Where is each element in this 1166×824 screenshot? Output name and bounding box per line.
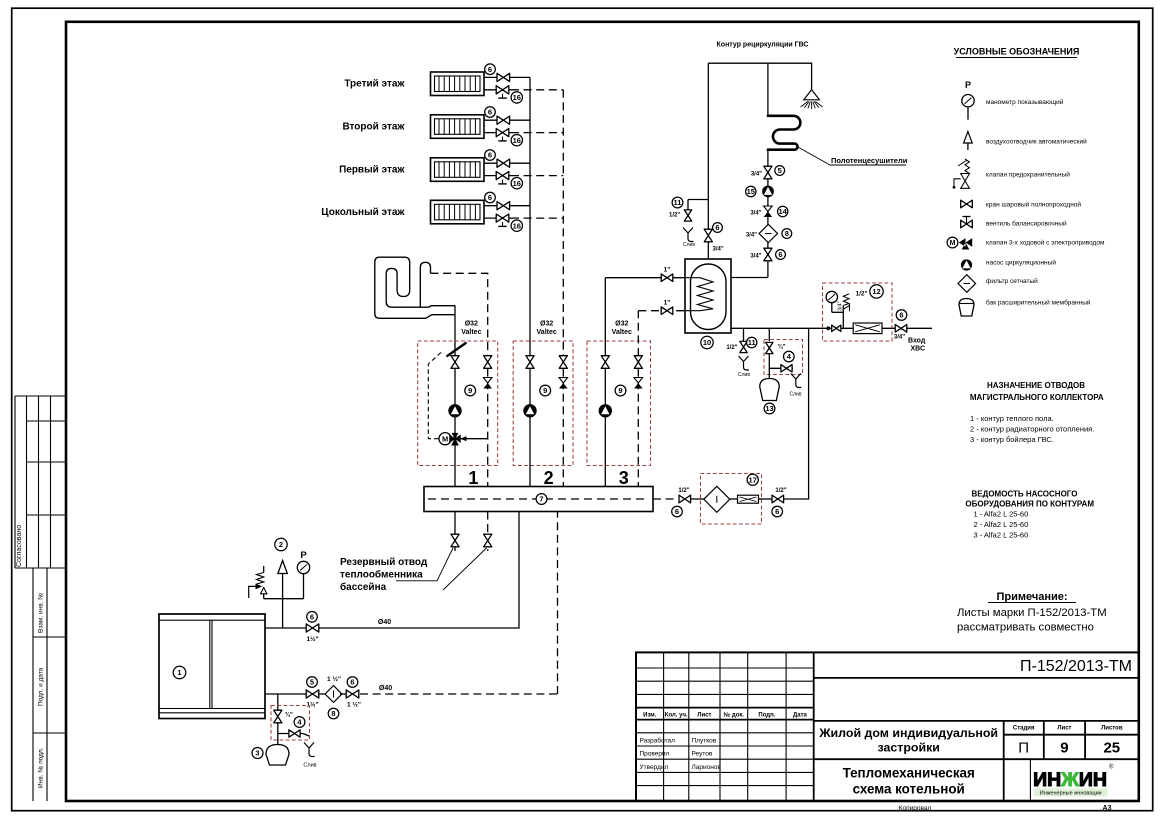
svg-text:9: 9 <box>1060 740 1068 757</box>
valve ¾ drain <box>274 710 305 727</box>
svg-text:6: 6 <box>310 613 314 622</box>
drain line to funnel <box>278 730 309 737</box>
svg-text:6: 6 <box>899 311 903 320</box>
svg-text:1 ½": 1 ½" <box>347 701 361 709</box>
pipe radiator return 2 <box>484 132 511 134</box>
valve group 1 supply <box>451 356 459 369</box>
svg-text:3/4": 3/4" <box>894 335 905 341</box>
label Вход ХВС <box>908 338 926 353</box>
svg-text:25: 25 <box>1103 740 1120 757</box>
valve 6 radiator supply 1 <box>485 64 510 82</box>
svg-text:2 - контур радиаторного отопле: 2 - контур радиаторного отопления. <box>970 425 1094 434</box>
svg-text:8: 8 <box>785 229 789 238</box>
svg-text:Подп.: Подп. <box>758 713 775 719</box>
valve 6 cold water inlet <box>894 310 907 341</box>
svg-text:Valtec: Valtec <box>537 329 557 336</box>
svg-text:Жилой дом индивидуальной: Жилой дом индивидуальной <box>818 726 998 740</box>
svg-text:Слив: Слив <box>303 763 316 769</box>
svg-text:схема котельной: схема котельной <box>853 782 965 797</box>
pipe radiator return 1 <box>484 89 511 91</box>
svg-text:6: 6 <box>350 678 354 687</box>
valve 16 radiator return 1 with drain <box>496 86 522 103</box>
pipe reserve outlet supply <box>454 512 456 552</box>
pump group 2 <box>523 404 536 417</box>
svg-text:Инженерные инновации: Инженерные инновации <box>1040 791 1102 797</box>
svg-text:Ларионов: Ларионов <box>692 764 722 771</box>
filter 17 strainer <box>691 486 730 512</box>
svg-text:Реутов: Реутов <box>692 751 713 758</box>
svg-text:7: 7 <box>539 495 543 504</box>
pipe collector to filter 17 <box>653 498 678 500</box>
pump group 1 <box>448 404 461 417</box>
radiator Первый этаж <box>431 158 485 182</box>
pipe floor circuit supply <box>454 306 456 356</box>
expansion tank 13 <box>760 379 780 414</box>
svg-text:МАГИСТРАЛЬНОГО КОЛЛЕКТОРА: МАГИСТРАЛЬНОГО КОЛЛЕКТОРА <box>970 393 1104 402</box>
pipe radiator return 3 <box>484 175 511 177</box>
object name Жилой дом <box>818 726 998 755</box>
svg-text:Valtec: Valtec <box>461 329 481 336</box>
pump group 2 boundary (red) <box>513 341 573 466</box>
filter 8 DHW <box>746 224 792 242</box>
note Примечание <box>957 591 1107 634</box>
svg-text:Первый этаж: Первый этаж <box>339 164 405 175</box>
pipe group 3 supply <box>604 356 606 487</box>
radiator Второй этаж <box>431 115 485 139</box>
valve 16 radiator return 4 with drain <box>496 214 522 231</box>
valve 16 radiator return 3 with drain <box>496 172 522 189</box>
svg-text:фильтр сетчатый: фильтр сетчатый <box>986 277 1038 285</box>
title block grid <box>636 652 1139 801</box>
pipe from DHW coil return (dashed) <box>637 311 639 356</box>
pipe radiator return 4 <box>484 217 511 219</box>
svg-text:рассматривать совместно: рассматривать совместно <box>957 622 1094 634</box>
floor heating coil <box>375 257 456 318</box>
svg-text:3/4": 3/4" <box>746 233 757 239</box>
svg-text:Инв. № подл.: Инв. № подл. <box>38 747 45 788</box>
label Ø32 Valtec group 2 <box>537 321 557 337</box>
valve 6 radiator supply 4 <box>485 192 510 210</box>
title block signatures <box>640 737 722 772</box>
svg-text:П: П <box>1018 740 1029 757</box>
heading НАЗНАЧЕНИЕ ОТВОДОВ <box>970 381 1104 402</box>
svg-text:6: 6 <box>488 193 492 202</box>
svg-text:УСЛОВНЫЕ ОБОЗНАЧЕНИЯ: УСЛОВНЫЕ ОБОЗНАЧЕНИЯ <box>954 47 1080 57</box>
three-way valve with actuator M group 1 <box>439 433 488 446</box>
balancing slash group 1 <box>447 343 467 357</box>
pipe radiator supply 2 <box>484 119 530 121</box>
svg-text:Кол. уч.: Кол. уч. <box>665 713 688 719</box>
svg-text:застройки: застройки <box>877 741 939 755</box>
valve group 3 return <box>634 356 642 369</box>
valve 6 chain <box>750 248 785 261</box>
drain valve box 4 (red) <box>271 706 310 741</box>
valve group 2 supply <box>526 356 534 369</box>
drain line DHW expansion <box>769 354 793 379</box>
valve 6 right of filter 17 <box>772 488 787 517</box>
svg-text:Контур рециркуляции ГВС: Контур рециркуляции ГВС <box>717 42 809 49</box>
svg-text:16: 16 <box>513 136 521 145</box>
legend balancing valve <box>961 217 1067 228</box>
check valve 14 <box>750 206 788 217</box>
svg-text:1/2": 1/2" <box>856 291 868 298</box>
pump 15 recirculation <box>746 186 774 198</box>
pipe make-up down <box>782 328 809 499</box>
sheet name Тепломеханическая схема котельной <box>843 766 975 797</box>
filter 8 boiler return <box>319 675 342 719</box>
tag 9 group 3 <box>615 385 626 396</box>
svg-text:ВЕДОМОСТЬ НАСОСНОГО: ВЕДОМОСТЬ НАСОСНОГО <box>972 490 1078 499</box>
svg-text:Цокольный этаж: Цокольный этаж <box>321 207 405 218</box>
logo ИНЖИН <box>1031 763 1115 800</box>
svg-text:1 - Alfa2 L 25-60: 1 - Alfa2 L 25-60 <box>974 510 1029 519</box>
tag 9 group 2 <box>540 385 551 396</box>
svg-text:¾": ¾" <box>285 712 293 719</box>
svg-text:1½": 1½" <box>306 701 318 709</box>
valve reserve supply <box>451 534 459 547</box>
DHW storage tank 10 <box>685 259 731 349</box>
svg-text:Ø32: Ø32 <box>465 321 478 328</box>
svg-text:6: 6 <box>775 507 779 516</box>
drain funnel boiler <box>304 743 315 757</box>
drain branch 11 cold water <box>726 328 757 352</box>
left margin approval table <box>15 396 66 568</box>
svg-text:6: 6 <box>778 250 782 259</box>
drain funnel DHW expansion <box>791 374 802 388</box>
tag 12 and size <box>856 285 884 298</box>
svg-text:клапан 3-х ходовой с электропр: клапан 3-х ходовой с электроприводом <box>986 239 1105 247</box>
svg-text:2: 2 <box>544 468 554 488</box>
svg-text:12: 12 <box>872 287 880 296</box>
legend air vent <box>964 132 1087 151</box>
valve 6 radiator supply 2 <box>485 107 510 125</box>
pipe group 2 supply <box>529 356 531 487</box>
svg-text:15: 15 <box>747 187 755 196</box>
svg-text:2: 2 <box>279 540 283 549</box>
svg-text:кран шаровый полнопроходной: кран шаровый полнопроходной <box>986 201 1081 209</box>
svg-text:НАЗНАЧЕНИЕ ОТВОДОВ: НАЗНАЧЕНИЕ ОТВОДОВ <box>987 381 1085 390</box>
pipe riser heating return (dashed) <box>562 90 564 356</box>
svg-text:8: 8 <box>331 709 335 718</box>
pipe floor circuit return (dashed) <box>431 273 488 356</box>
svg-text:3 - контур бойлера ГВС.: 3 - контур бойлера ГВС. <box>970 435 1054 444</box>
valve 16 radiator return 2 with drain <box>496 129 522 146</box>
expansion tank 3 <box>252 745 289 766</box>
safety valve boiler <box>249 566 267 599</box>
drain funnel DHW top <box>683 228 694 242</box>
svg-text:клапан предохранительный: клапан предохранительный <box>986 171 1070 179</box>
valve group 3 supply <box>601 356 609 369</box>
pressure reducing unit box 12 (red) <box>823 283 893 341</box>
svg-text:6: 6 <box>488 151 492 160</box>
svg-text:Плутков: Плутков <box>692 738 717 745</box>
valve 6 boiler return <box>340 677 361 709</box>
svg-text:1: 1 <box>468 468 478 488</box>
svg-text:6: 6 <box>715 223 719 232</box>
svg-text:1: 1 <box>177 668 181 677</box>
pipe group 2 return (dashed) <box>562 356 564 487</box>
pressure gauge box 12 <box>826 291 843 312</box>
check valve box 12 <box>826 325 841 331</box>
svg-text:3/4": 3/4" <box>751 172 762 178</box>
filter unit box 17 (red) <box>701 474 762 525</box>
svg-text:Valtec: Valtec <box>612 329 632 336</box>
legend expansion tank <box>959 299 1091 317</box>
svg-text:11: 11 <box>748 338 756 347</box>
svg-text:3 - Alfa2 L 25-60: 3 - Alfa2 L 25-60 <box>974 531 1029 540</box>
svg-text:Примечание:: Примечание: <box>996 591 1067 603</box>
svg-text:Ø40: Ø40 <box>379 685 392 692</box>
svg-text:3/4": 3/4" <box>838 301 844 311</box>
valve group 1 return <box>484 356 492 369</box>
pump equipment list <box>974 510 1029 540</box>
valve 6 boiler supply <box>306 612 319 644</box>
svg-text:П-152/2013-ТМ: П-152/2013-ТМ <box>1020 658 1132 675</box>
svg-text:P: P <box>965 80 971 90</box>
valve 6 left of filter 17 <box>672 488 691 517</box>
stage sheet headers <box>1013 726 1123 732</box>
svg-text:Тепломеханическая: Тепломеханическая <box>843 766 975 781</box>
svg-text:Дата: Дата <box>793 713 808 719</box>
label Ø32 Valtec group 1 <box>461 321 481 337</box>
svg-text:9: 9 <box>618 386 622 395</box>
svg-text:Подп. и дата: Подп. и дата <box>38 667 45 706</box>
svg-text:11: 11 <box>674 198 682 207</box>
svg-text:бак расширительный мембранный: бак расширительный мембранный <box>986 299 1091 307</box>
drain funnel cold water <box>739 356 750 370</box>
magnetic insert 17 <box>730 495 772 503</box>
pipe group 1 return (dashed) <box>487 356 489 487</box>
bypass pipe group 1 (dashed) <box>428 353 441 439</box>
towel warmer coil <box>768 116 800 150</box>
drain branch 11 DHW top <box>669 197 708 221</box>
pipe cold water main <box>731 327 823 329</box>
svg-text:1/2": 1/2" <box>678 488 689 494</box>
title block header labels <box>643 712 807 719</box>
svg-text:¾": ¾" <box>778 344 786 351</box>
DHW expansion group box 4 (red) <box>764 340 803 375</box>
svg-text:P: P <box>300 550 307 561</box>
svg-text:1": 1" <box>664 300 671 307</box>
svg-text:1/2": 1/2" <box>775 488 786 494</box>
svg-text:насос циркуляционный: насос циркуляционный <box>986 259 1056 267</box>
svg-text:ИНЖИН: ИНЖИН <box>1033 769 1107 791</box>
pipe DHW recirculation loop <box>708 63 811 89</box>
valve 5 boiler return <box>306 677 319 709</box>
svg-text:10: 10 <box>703 338 711 347</box>
legend pressure gauge <box>962 80 1064 120</box>
svg-text:5: 5 <box>310 678 314 687</box>
valve 6 radiator supply 3 <box>485 150 510 168</box>
pipe to DHW coil supply <box>604 278 606 356</box>
valve group 2 return <box>559 356 567 369</box>
svg-text:1 ½": 1 ½" <box>327 675 341 683</box>
svg-text:3/4": 3/4" <box>713 247 724 253</box>
svg-text:1½": 1½" <box>306 635 318 643</box>
valve 5 chain <box>751 166 785 179</box>
pipe radiator supply 3 <box>484 162 530 164</box>
valve ¾ DHW expansion <box>766 328 795 362</box>
svg-text:9: 9 <box>468 386 472 395</box>
svg-text:16: 16 <box>513 93 521 102</box>
check valve group 2 <box>559 378 568 389</box>
legend safety valve <box>953 159 1071 189</box>
check valve group 3 <box>634 378 643 389</box>
pipe radiator supply 4 <box>484 205 530 207</box>
pressure reducer symbol <box>853 323 882 334</box>
pipe reserve outlet return (dashed) <box>487 512 489 552</box>
valve reserve return <box>484 534 492 547</box>
boiler drain branch <box>277 694 279 745</box>
pipe DHW tank top <box>707 63 709 259</box>
svg-text:Второй этаж: Второй этаж <box>342 121 405 132</box>
legend circulation pump <box>961 259 1056 271</box>
svg-text:6: 6 <box>488 108 492 117</box>
pipe DHW valve chain <box>767 150 769 278</box>
safety valve box 12 <box>838 294 850 328</box>
pipe boiler return (dashed) <box>265 693 306 695</box>
svg-text:Проверил: Проверил <box>640 751 670 758</box>
svg-text:16: 16 <box>513 179 521 188</box>
svg-text:воздухоотводчик автоматический: воздухоотводчик автоматический <box>986 138 1087 146</box>
svg-text:Утвердил: Утвердил <box>640 764 669 771</box>
svg-text:Взам. инв. №: Взам. инв. № <box>38 593 45 633</box>
svg-text:ОБОРУДОВАНИЯ ПО КОНТУРАМ: ОБОРУДОВАНИЯ ПО КОНТУРАМ <box>965 500 1094 509</box>
svg-text:ХВС: ХВС <box>911 346 926 353</box>
svg-text:Слив: Слив <box>790 392 802 398</box>
label Полотенцесушители <box>797 147 908 166</box>
pump group 3 <box>599 404 612 417</box>
pump group 1 boundary (red) <box>418 341 498 466</box>
svg-text:3: 3 <box>255 749 259 758</box>
svg-text:5: 5 <box>778 166 782 175</box>
label Резервный отвод теплообменника бассейна <box>340 548 487 593</box>
legend title УСЛОВНЫЕ ОБОЗНАЧЕНИЯ <box>954 47 1080 58</box>
svg-text:бассейна: бассейна <box>340 581 387 593</box>
tag 17 <box>747 474 758 485</box>
svg-text:Ø40: Ø40 <box>378 619 391 626</box>
pipe inside box 12 <box>823 327 893 329</box>
valve 6 DHW tank top <box>704 223 724 253</box>
svg-text:А3: А3 <box>1103 805 1112 812</box>
svg-text:Листов: Листов <box>1101 726 1123 732</box>
svg-text:Ø32: Ø32 <box>615 321 628 328</box>
svg-text:Полотенцесушители: Полотенцесушители <box>831 156 908 165</box>
svg-text:3/4": 3/4" <box>750 254 761 260</box>
left margin inventory table <box>33 568 66 801</box>
radiator Третий этаж <box>431 72 485 96</box>
svg-text:вентиль балансировочный: вентиль балансировочный <box>986 220 1067 228</box>
svg-text:1/2": 1/2" <box>669 213 680 219</box>
pump group 3 boundary (red) <box>587 341 651 466</box>
pipe riser heating supply (solid) <box>529 77 531 356</box>
svg-text:теплообменника: теплообменника <box>340 569 423 581</box>
legend ball valve <box>961 200 1082 208</box>
collector 7 <box>424 487 653 512</box>
pressure gauge P boiler <box>264 550 310 599</box>
svg-text:Копировал: Копировал <box>899 805 932 812</box>
svg-text:9: 9 <box>543 386 547 395</box>
svg-text:13: 13 <box>765 404 773 413</box>
svg-text:3: 3 <box>619 468 629 488</box>
valve 1in coil return <box>661 300 673 315</box>
label Ø32 Valtec group 3 <box>612 321 632 337</box>
radiator Цокольный этаж <box>431 200 485 224</box>
svg-text:Стадия: Стадия <box>1013 726 1035 732</box>
tag 9 group 1 <box>465 385 476 396</box>
collector outlets list <box>970 414 1094 444</box>
svg-text:1": 1" <box>664 267 671 274</box>
svg-text:6: 6 <box>488 65 492 74</box>
svg-text:M: M <box>950 240 956 247</box>
svg-text:Слив: Слив <box>738 372 750 378</box>
svg-text:16: 16 <box>513 221 521 230</box>
svg-text:®: ® <box>1109 764 1114 771</box>
stage sheet values <box>1018 740 1120 757</box>
svg-text:2 - Alfa2 L 25-60: 2 - Alfa2 L 25-60 <box>974 520 1029 529</box>
pipe radiator supply 1 <box>484 76 530 78</box>
svg-text:Листы марки П-152/2013-ТМ: Листы марки П-152/2013-ТМ <box>957 607 1107 619</box>
pipe group 1 supply <box>454 356 456 487</box>
svg-text:Третий этаж: Третий этаж <box>344 79 405 90</box>
svg-text:3/4": 3/4" <box>750 211 761 217</box>
legend strainer filter <box>958 275 1038 293</box>
svg-text:Слив: Слив <box>683 242 695 248</box>
valve 1in coil supply <box>661 267 673 282</box>
heading ВЕДОМОСТЬ НАСОСНОГО <box>965 490 1094 509</box>
pipe towel coil riser <box>767 63 769 116</box>
svg-text:№ док.: № док. <box>724 712 745 719</box>
svg-text:Ø32: Ø32 <box>540 321 553 328</box>
svg-text:манометр показывающий: манометр показывающий <box>986 98 1064 106</box>
svg-text:14: 14 <box>779 207 788 216</box>
svg-text:Лист: Лист <box>697 713 711 719</box>
pipe boiler supply <box>265 512 519 629</box>
svg-text:17: 17 <box>749 475 757 484</box>
svg-text:Резервный отвод: Резервный отвод <box>340 557 428 568</box>
svg-text:Лист: Лист <box>1057 726 1071 732</box>
svg-text:Согласовано: Согласовано <box>16 525 23 567</box>
shower head <box>801 90 823 109</box>
svg-text:1 - контур теплого пола.: 1 - контур теплого пола. <box>970 414 1054 423</box>
legend 3-way valve with drive <box>947 237 1105 249</box>
svg-text:Вход: Вход <box>908 338 926 345</box>
boiler 1 <box>159 614 265 719</box>
svg-text:M: M <box>442 435 448 444</box>
svg-text:Изм.: Изм. <box>643 713 657 719</box>
svg-text:Разработал: Разработал <box>640 737 676 745</box>
svg-text:6: 6 <box>675 507 679 516</box>
check valve group 1 <box>483 378 492 389</box>
air vent 2 on boiler outlet <box>275 538 288 628</box>
pipe group 3 return (dashed) <box>637 356 639 487</box>
svg-text:1/2": 1/2" <box>726 345 737 351</box>
